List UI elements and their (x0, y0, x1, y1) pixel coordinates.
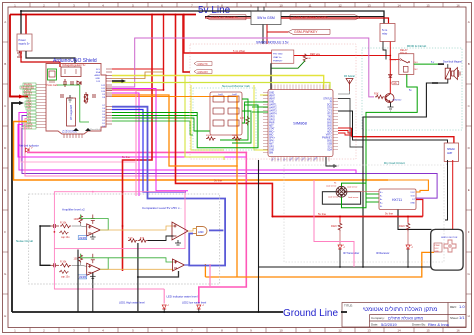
wire comp1 out to AND (188, 229, 197, 232)
capacitor C-in1 (51, 224, 60, 228)
magnet top pin (438, 63, 444, 65)
svg-text:RED wire: RED wire (310, 53, 321, 56)
svg-text:VBAT 4v: VBAT 4v (273, 56, 282, 59)
wire led2 gnd (198, 309, 200, 312)
wire antenna link (338, 99, 363, 148)
resistor R-pwk (303, 54, 307, 62)
svg-text:UART4: UART4 (269, 113, 277, 116)
svg-text:SCK: SCK (411, 196, 416, 198)
svg-text:B: B (4, 62, 6, 66)
wire 5V left vertical (red) (10, 15, 28, 97)
wire GSM box top pins (257, 7, 259, 12)
wire R to opamp1 (72, 226, 87, 227)
capacitor C-d (60, 95, 64, 97)
wire relay box pins down (383, 42, 386, 60)
svg-text:AND: AND (198, 230, 204, 234)
wire A-pin purple bus (19, 113, 356, 174)
wire relay region black return (363, 83, 432, 267)
svg-text:LED1 High water level: LED1 High water level (119, 301, 145, 305)
resistor R-fb2 (79, 254, 83, 263)
wire fbR to input 1 (80, 223, 82, 226)
wire d-ir2 to gnd (407, 249, 409, 267)
wire pink vert x136 (112, 91, 136, 197)
shield right pin names lower (102, 105, 106, 128)
svg-text:UART3: UART3 (269, 110, 277, 113)
svg-text:RXD: RXD (327, 120, 332, 122)
wire SIM gnd drop (326, 157, 336, 166)
ground sym inside shield (67, 95, 73, 102)
svg-text:cap 10u: cap 10u (61, 275, 70, 278)
wire PSU red up (25, 15, 27, 35)
svg-text:MIC+: MIC+ (269, 132, 275, 134)
svg-text:100k: 100k (74, 257, 80, 260)
svg-text:Amplifier level x2: Amplifier level x2 (62, 208, 85, 212)
svg-text:13: 13 (367, 3, 371, 7)
wire r-ir2 links (407, 217, 409, 223)
wire yellow2 (112, 83, 330, 90)
wire relay COM red (390, 59, 399, 61)
svg-text:Dry food Circuit: Dry food Circuit (384, 161, 405, 165)
shield right pin names mid (101, 85, 106, 99)
wire black mic input (40, 226, 50, 265)
svg-text:GSM-POWER-KEY5v: GSM-POWER-KEY5v (293, 16, 328, 20)
wire d-ir1 to gnd (339, 249, 341, 267)
svg-text:10K: 10K (307, 58, 311, 60)
wire yellow1 (112, 76, 324, 90)
svg-text:PWRKEY: PWRKEY (322, 138, 332, 140)
svg-text:5v line: 5v line (214, 179, 223, 183)
wire orange bottom bus (205, 252, 434, 277)
svg-text:P5V GND: P5V GND (273, 54, 283, 56)
wire A-pin pink bus (25, 119, 246, 177)
svg-text:supply 5v: supply 5v (19, 42, 31, 46)
wire A-pin magenta bus (22, 116, 437, 199)
comparator U10B (173, 259, 185, 271)
svg-text:RTS: RTS (327, 114, 332, 116)
wire orange stub bottom (204, 264, 206, 277)
ground sym amp2 (90, 273, 96, 278)
svg-text:MIC-: MIC- (269, 135, 274, 137)
svg-text:F: F (468, 230, 470, 234)
svg-text:מתקן האכלת חתולים אוטומטי: מתקן האכלת חתולים אוטומטי (363, 305, 438, 313)
svg-text:11: 11 (308, 3, 311, 7)
resistor R-a (vert) (84, 92, 88, 104)
svg-text:Q2N2222: Q2N2222 (392, 100, 402, 102)
SIM868 right pins (333, 99, 338, 150)
Dry food dashed boundary (284, 165, 444, 262)
svg-text:מתקן האכלת חתולים: מתקן האכלת חתולים (388, 316, 423, 321)
svg-text:LED indicator water level: LED indicator water level (167, 294, 198, 298)
svg-text:GND: GND (327, 141, 332, 143)
svg-text:10: 10 (279, 329, 283, 333)
svg-text:ATmega328: ATmega328 (69, 105, 73, 120)
svg-text:UART2: UART2 (269, 107, 277, 110)
ground sym amp1 (90, 234, 96, 239)
svg-text:COM: COM (391, 60, 396, 62)
svg-text:SPK-: SPK- (269, 141, 275, 143)
svg-text:NET: NET (269, 126, 274, 128)
svg-text:A: A (4, 20, 6, 24)
svg-text:16: 16 (456, 329, 460, 333)
wire red to GSM box (205, 17, 251, 19)
svg-text:14: 14 (397, 329, 401, 333)
load cell bridge LC1 (336, 186, 347, 197)
svg-text:Load sensor: Load sensor (326, 185, 337, 188)
svg-text:SDA: SDA (96, 71, 101, 74)
svg-text:Sheet:: Sheet: (450, 316, 459, 320)
svg-text:Company:: Company: (371, 316, 385, 320)
svg-text:H: H (468, 314, 470, 318)
GSM module dashed boundary (190, 44, 356, 159)
svg-text:15: 15 (426, 329, 430, 333)
resistor R-c2 (138, 239, 147, 243)
svg-text:R.5K: R.5K (128, 238, 133, 240)
svg-text:LM386: LM386 (79, 277, 87, 279)
transistor Q1 (385, 94, 402, 103)
junction dots noise rail (122, 191, 124, 193)
wire comp gnd sym (175, 240, 181, 245)
svg-text:5W to GSM: 5W to GSM (257, 16, 275, 20)
comparator U10A (172, 222, 188, 240)
svg-text:ANT: ANT (269, 143, 274, 146)
LED D-w2 low (182, 301, 207, 310)
svg-text:SERVO MOTOR: SERVO MOTOR (441, 237, 458, 239)
wire green3 (112, 115, 197, 117)
wire sim power black down (270, 63, 272, 90)
capacitor C-top1 (91, 215, 95, 224)
wire orange1 (112, 95, 237, 166)
shield right pin stubs (106, 69, 112, 124)
svg-text:STATUS: STATUS (323, 98, 332, 101)
wire comp2 out blue (184, 264, 189, 266)
capacitor C-in2 (51, 263, 60, 267)
SIM868 top pins (272, 85, 329, 90)
svg-text:Load sensor: Load sensor (347, 186, 358, 189)
mount hole marks (73, 128, 79, 131)
ground sym SIM (334, 164, 338, 168)
svg-text:AREF: AREF (94, 74, 100, 77)
wire GSM box right red (281, 18, 389, 24)
module U6 net-led box (210, 92, 242, 135)
wire base resistor to Q1 (384, 96, 386, 98)
op-amp U-amp1 (87, 224, 101, 236)
wire speaker box down black (445, 160, 448, 220)
green fb loop 2 (81, 254, 109, 269)
svg-text:10: 10 (279, 3, 283, 7)
svg-text:Led1: Led1 (218, 94, 224, 96)
resistor R-c1 (128, 239, 137, 243)
svg-text:RF helical: RF helical (344, 75, 355, 78)
diode D-relay (389, 74, 393, 77)
antenna ANT1 (344, 75, 355, 91)
wire black drop opamp2 (92, 272, 94, 312)
global label GSM-5V (left arrow) (205, 15, 246, 20)
svg-text:relay: relay (382, 33, 388, 36)
wire orange hx loop (388, 180, 428, 192)
wire green2 (112, 118, 210, 131)
servo loop black (431, 229, 463, 270)
wire comp-res gnd drop (137, 243, 139, 312)
resistor R-sim 4.7K (240, 116, 249, 125)
wire GSM box bottom pins (262, 25, 264, 45)
svg-text:LED2 low water level: LED2 low water level (182, 301, 207, 305)
svg-text:UART1: UART1 (269, 104, 277, 107)
shield left pin labels (analog) (24, 112, 33, 130)
svg-text:Ground Line: Ground Line (283, 308, 338, 319)
svg-text:TXD: TXD (327, 117, 332, 119)
svg-text:5v line: 5v line (122, 155, 131, 159)
title block (342, 303, 466, 328)
wire green usb-atmega (57, 85, 89, 122)
svg-text:VoltageRegulator 5v: VoltageRegulator 5v (62, 63, 86, 67)
svg-text:Net-Led indicator: Net-Led indicator (19, 144, 39, 148)
svg-text:MountHole: MountHole (90, 128, 101, 131)
shield bottom pin row (64, 134, 82, 138)
LED D-ind indicator (19, 144, 39, 153)
shield left pin labels (power) (21, 84, 34, 111)
svg-text:R 10k: R 10k (60, 261, 67, 264)
wire red vertical RV2 (163, 15, 165, 91)
wire ground line bottom bus (12, 311, 283, 313)
svg-text:REV:: REV: (450, 305, 457, 309)
wire GSM box right black (281, 16, 384, 18)
connector J-USB (46, 69, 58, 87)
global label GSM-PWR (right) (290, 15, 360, 20)
wire red vertical RV3 to 5vline bus (176, 15, 273, 217)
wire A-pin orange bus (14, 122, 389, 181)
wire pink drop x210 (209, 264, 211, 287)
wire SIM right reds to speaker bus (338, 127, 352, 129)
global label under GSM box (288, 29, 330, 34)
shield right pin names upper (94, 69, 100, 83)
svg-text:14: 14 (397, 3, 401, 7)
resistor R-pot1 (59, 231, 69, 234)
svg-text:SIM868: SIM868 (293, 121, 308, 126)
svg-text:1/1: 1/1 (459, 315, 465, 320)
svg-text:GPIO: GPIO (269, 117, 275, 119)
svg-text:GND: GND (327, 126, 332, 128)
svg-text:E: E (4, 188, 6, 192)
converter U7 5v to relay (380, 24, 395, 42)
resistor R-in1 (60, 224, 71, 228)
wire relay NO green to magnet (414, 63, 438, 65)
battery BT1 (17, 51, 22, 57)
capacitor C-top2 (91, 254, 95, 263)
svg-text:SIM: SIM (269, 153, 273, 155)
svg-text:RI: RI (330, 102, 333, 104)
svg-text:VCC: VCC (435, 248, 440, 250)
RFID dashed boundary (362, 48, 462, 130)
svg-text:Drawn By:: Drawn By: (412, 323, 426, 327)
svg-text:R1K: R1K (374, 93, 379, 96)
svg-text:GPS: GPS (269, 147, 274, 149)
svg-text:A: A (468, 20, 470, 24)
label door-lock global (391, 81, 399, 85)
resistor R-pot2 (59, 270, 69, 273)
svg-text:VCC: VCC (410, 192, 415, 194)
wire bridge red e+ (347, 191, 379, 193)
svg-text:GND: GND (269, 150, 274, 152)
svg-text:GSM-RX: GSM-RX (198, 70, 209, 74)
wire relay-drive violet (112, 38, 374, 97)
svg-text:cap 10u: cap 10u (61, 236, 70, 239)
svg-text:VRTC: VRTC (326, 135, 333, 137)
green fb loop 1 (81, 215, 109, 231)
svg-text:USB: USB (327, 144, 332, 146)
svg-text:B: B (468, 62, 470, 66)
wire R to opamp2 (72, 265, 87, 266)
wire fbR to input 2 (80, 262, 82, 265)
svg-text:SRD-05: SRD-05 (400, 52, 408, 54)
resistor R-fb1 (79, 215, 83, 224)
SIM bottom pin labels (271, 156, 318, 162)
wire black to GSM box (205, 16, 251, 18)
svg-text:IR Transmitter: IR Transmitter (343, 251, 359, 255)
wire yellow4 (191, 85, 224, 150)
shield A1 ArduinoUNO outline (46, 64, 106, 135)
wire 5V top bus (red) (10, 14, 196, 16)
svg-text:15: 15 (426, 3, 430, 7)
magnet bottom pin (432, 82, 438, 84)
speaker sym door (452, 68, 461, 80)
LED D-ir1 transmitter (338, 245, 359, 256)
svg-text:VDD: VDD (327, 129, 332, 131)
wire pink LED1 branch (163, 289, 165, 304)
capacitor C-a (63, 79, 67, 87)
LED D-w1 high (119, 301, 169, 310)
svg-text:5v line: 5v line (318, 212, 327, 216)
wire A-pin palepink (21, 128, 135, 163)
IC U12 HX711 (379, 189, 416, 210)
wire pink water-level bus (27, 152, 246, 303)
svg-text:E-: E- (380, 196, 382, 198)
wire 5V into shield (red arrow) (10, 95, 24, 99)
wire red 5vline bus mid (272, 216, 422, 218)
svg-text:SIM868 MODULE 3.5v: SIM868 MODULE 3.5v (256, 41, 289, 45)
svg-text:H: H (4, 314, 6, 318)
svg-text:Load sensor: Load sensor (328, 196, 339, 199)
wire AND out stub (209, 229, 223, 231)
SIM868 left pins (263, 93, 268, 153)
svg-text:R 10k: R 10k (60, 221, 67, 224)
svg-text:Power: Power (19, 38, 26, 42)
regulator U2 (61, 63, 86, 77)
power supply PS1 (17, 34, 32, 51)
svg-text:SDA: SDA (327, 149, 332, 152)
svg-text:RFID & Circuit: RFID & Circuit (407, 44, 426, 48)
svg-text:R220: R220 (399, 225, 405, 228)
wire pink ir link (314, 180, 354, 267)
wire hx red down (416, 200, 423, 217)
wire blue thick comparator loop (112, 107, 225, 266)
svg-text:12: 12 (338, 3, 342, 7)
wire black vertical x258 (258, 160, 260, 312)
wire comp1 plus link (148, 236, 174, 241)
svg-text:R330: R330 (206, 135, 212, 137)
wire green4 (112, 121, 193, 135)
svg-text:PWRKEY: PWRKEY (273, 61, 283, 63)
svg-text:CTS: CTS (327, 111, 332, 113)
wire blue2 (112, 110, 186, 193)
wire PSU black up (20, 11, 22, 34)
svg-text:VBAT: VBAT (269, 98, 275, 101)
diode D-b (85, 95, 88, 103)
svg-text:Comparator Level 5V c/5V c...: Comparator Level 5V c/5V c... (142, 206, 182, 210)
svg-text:DCD: DCD (327, 105, 332, 107)
wire green sim stubs (252, 101, 268, 103)
svg-text:GSM-PWRKEY: GSM-PWRKEY (294, 30, 318, 34)
wire black mid bus (259, 266, 431, 268)
label GSM-TX global (194, 62, 212, 66)
svg-text:Prolo.Cab: Prolo.Cab (46, 83, 58, 87)
servo M2 (441, 237, 458, 252)
svg-text:R220: R220 (331, 225, 337, 228)
op-amp U-amp2 (87, 263, 101, 275)
svg-text:STAT: STAT (269, 128, 275, 131)
svg-text:GSM-POWER5v: GSM-POWER5v (211, 16, 238, 20)
wire r-ir1 links (339, 217, 341, 223)
wire comp2 green in (108, 258, 173, 262)
wire PSU out black (26, 51, 75, 64)
svg-text:B-: B- (380, 206, 382, 208)
wire GND thick left vertical (12, 101, 24, 312)
wire led1 gnd (163, 309, 165, 312)
wire green1 netled loop (112, 105, 258, 148)
wire bridge green loop (342, 183, 367, 208)
svg-text:GND: GND (410, 203, 415, 205)
svg-text:Door/lock Magnet: Door/lock Magnet (443, 61, 462, 64)
svg-text:AMP: AMP (447, 152, 453, 155)
svg-text:IR Receiver: IR Receiver (376, 251, 390, 255)
wire GND top bus (black) (21, 11, 384, 24)
LED D-ir2 receiver (376, 245, 413, 256)
resistor R-n2 (232, 137, 241, 141)
resistor R-n1 (206, 137, 215, 141)
wire 5v drop x183 (red) (183, 15, 190, 73)
speaker driver U8 (444, 143, 458, 161)
svg-text:GND: GND (269, 102, 274, 104)
wire relay green return (366, 74, 417, 183)
svg-text:Load sensor: Load sensor (348, 196, 359, 199)
wire magnet gnd (438, 79, 448, 83)
wire magenta vert x156 (112, 89, 188, 191)
svg-text:Net-Led Monitor Cab: Net-Led Monitor Cab (222, 84, 250, 88)
svg-text:F: F (4, 230, 6, 234)
svg-text:100k: 100k (74, 218, 80, 221)
wire opamp2 out (100, 268, 173, 270)
module U13 sim power (272, 50, 294, 63)
capacitor C-b (70, 82, 74, 84)
svg-text:13: 13 (367, 329, 371, 333)
svg-text:R1: R1 (334, 183, 336, 185)
wire bridge black loop (322, 192, 360, 205)
label GSM-RX global (194, 70, 212, 74)
wire PSU out red (21, 51, 60, 67)
svg-text:1.0: 1.0 (459, 304, 465, 309)
wire hx black down (398, 210, 432, 230)
wire magenta vert x139 (112, 93, 139, 196)
svg-text:R330: R330 (232, 135, 238, 137)
SIM868 bottom pins (272, 157, 329, 162)
resistor R-ir2 (399, 222, 410, 231)
svg-text:Rtex & Inna: Rtex & Inna (428, 322, 450, 327)
IC U3 ATmega328 (67, 98, 76, 126)
svg-text:12: 12 (338, 329, 342, 333)
svg-text:NC: NC (415, 69, 419, 71)
svg-text:PWM: PWM (435, 245, 440, 247)
resistor R-base (374, 93, 384, 99)
svg-text:TITLE:: TITLE: (344, 304, 353, 308)
